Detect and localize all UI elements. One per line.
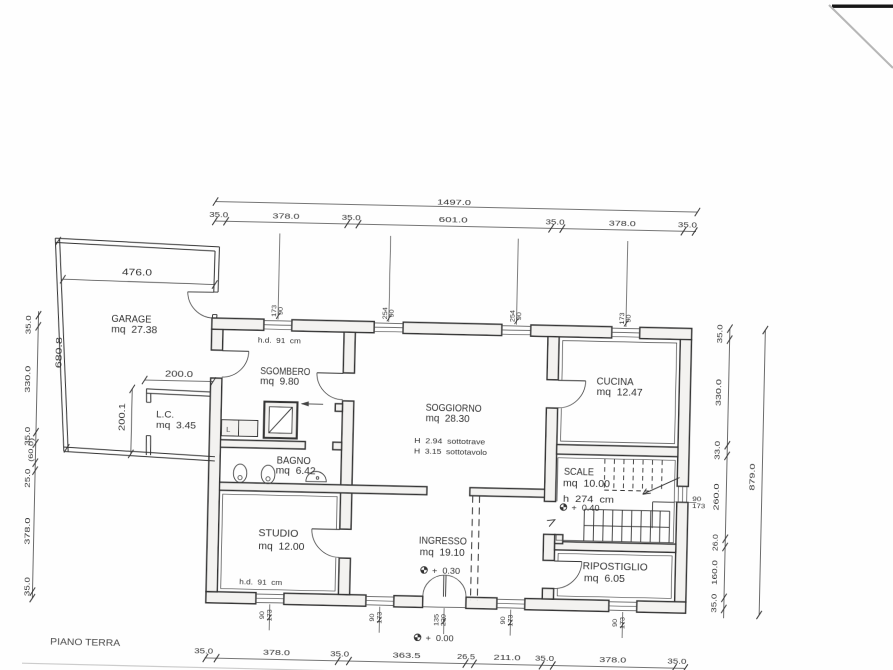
svg-text:STUDIO: STUDIO <box>258 528 298 540</box>
wall: bottom exterior pier 4 <box>466 597 497 609</box>
svg-text:90: 90 <box>500 616 507 625</box>
svg-text:mq 27.38: mq 27.38 <box>111 324 158 336</box>
window: ingresso bottom-right 90/173 <box>497 598 525 601</box>
svg-text:135: 135 <box>433 613 440 626</box>
svg-text:25.0: 25.0 <box>23 469 32 488</box>
svg-text:+ 0.40: + 0.40 <box>571 503 600 513</box>
svg-text:PIANO TERRA: PIANO TERRA <box>50 637 121 650</box>
svg-text:601.0: 601.0 <box>439 215 468 225</box>
wall: top exterior (sgombero) <box>212 318 264 330</box>
lift: cabin inner <box>269 407 293 434</box>
plaster line: scale interior <box>556 458 675 543</box>
dimension: right chain line <box>724 328 730 618</box>
door: sgombero-soggiorno, leaf + arc <box>317 372 343 375</box>
leader: studio window bottom <box>268 604 271 630</box>
dimension: garage 476.0 <box>63 279 215 284</box>
dimension: left chain line <box>32 311 38 598</box>
svg-text:26.5: 26.5 <box>457 654 475 661</box>
wall: ingresso/ripostiglio partition <box>542 588 553 599</box>
door: garage leaf and swing arc <box>188 291 214 294</box>
svg-text:SCALE: SCALE <box>564 467 595 479</box>
datum: entrance +0.00 <box>414 634 421 641</box>
svg-text:35.0: 35.0 <box>194 646 213 655</box>
wall: garage bottom (double line) <box>64 451 215 461</box>
fixture: washbasin dome <box>306 471 327 482</box>
svg-text:90: 90 <box>516 312 523 321</box>
svg-text:33.0: 33.0 <box>713 441 722 460</box>
wall: top exterior (soggiorno/cucina pier) <box>531 325 612 338</box>
stairs: cut diagonal <box>643 477 680 495</box>
window: soggiorno top-left 90/254 <box>374 322 403 325</box>
wall: garage right stub at building corner <box>211 315 213 319</box>
scan artifact: page corner diagonal <box>829 5 893 68</box>
dimension: garage 680.8 (rotated) <box>55 237 60 246</box>
svg-text:90: 90 <box>278 306 285 315</box>
leader: stair landing window 90/173 <box>674 501 696 503</box>
leader: sgombero window <box>278 233 280 319</box>
leader: cucina window <box>626 241 628 327</box>
svg-text:378.0: 378.0 <box>599 655 626 665</box>
leader: ripostiglio window bottom <box>621 612 624 638</box>
wall: garage right upper (double line) <box>214 251 215 292</box>
door: ripostiglio, leaf + arc <box>554 560 581 563</box>
leader: ingresso window bottom-right <box>509 610 512 636</box>
leader: ingresso window bottom-left <box>378 607 381 633</box>
wall: garage left (double line) <box>51 238 69 451</box>
svg-text:476.0: 476.0 <box>122 267 152 278</box>
lift: diagonal <box>269 407 293 434</box>
svg-text:173: 173 <box>266 609 273 622</box>
wall: bagno-studio / soggiorno-ingresso wall <box>219 482 427 495</box>
svg-text:680.8: 680.8 <box>53 337 64 369</box>
door: cucina, leaf + arc <box>558 379 585 382</box>
plaster line: studio interior <box>221 494 337 591</box>
svg-text:35.0: 35.0 <box>545 217 564 226</box>
svg-text:mq 3.45: mq 3.45 <box>156 420 196 432</box>
svg-text:35.0: 35.0 <box>24 315 33 334</box>
svg-text:35.0: 35.0 <box>709 594 718 613</box>
wall: cucina/scale wall <box>557 445 678 457</box>
wall: bottom exterior pier 2 <box>284 593 366 606</box>
svg-text:mq 10.00: mq 10.00 <box>563 478 611 490</box>
wall: scale/ripostiglio wall <box>555 542 676 553</box>
wall: right exterior lower <box>675 502 688 602</box>
window: ingresso bottom-left 90/173 <box>366 595 394 598</box>
scan artifact: black bar top-right <box>832 5 893 8</box>
svg-text:200.0: 200.0 <box>165 369 194 379</box>
stairs: upper flight dashed treads <box>603 459 606 490</box>
svg-text:90: 90 <box>259 611 266 620</box>
svg-text:260.0: 260.0 <box>711 483 721 510</box>
svg-text:RIPOSTIGLIO: RIPOSTIGLIO <box>583 561 648 573</box>
wall: soggiorno/cucina partition <box>547 337 559 380</box>
wall: bagno top wall stub <box>333 442 342 450</box>
wall: soggiorno-ingresso wall right piece <box>470 488 545 498</box>
dashed line: ingresso virtual boundary (double) <box>471 496 473 600</box>
svg-text:363.5: 363.5 <box>392 651 420 661</box>
svg-text:mq 12.47: mq 12.47 <box>596 387 643 399</box>
door: main entrance double leaves + arcs <box>442 575 444 597</box>
wall: studio/ingresso partition middle <box>340 401 354 529</box>
svg-text:INGRESSO: INGRESSO <box>419 535 467 547</box>
window: sgombero top 90/173 <box>264 320 292 323</box>
stairs: upper flight dashed stringer <box>604 490 652 491</box>
svg-text:330.0: 330.0 <box>714 379 724 406</box>
stairs: lower flight stringers <box>584 509 669 511</box>
svg-text:mq 6.42: mq 6.42 <box>276 466 317 478</box>
svg-text:1497.0: 1497.0 <box>437 197 471 207</box>
wall: ingresso/scale partition <box>543 534 555 560</box>
dimension: l.c. 200.0 <box>145 380 213 381</box>
svg-text:173: 173 <box>376 611 383 624</box>
wall: bagno top wall <box>220 440 305 449</box>
wall: l.c. left lower <box>145 436 148 456</box>
svg-text:H 2.94 sottotrave: H 2.94 sottotrave <box>414 438 485 447</box>
wall: l.c. top (double line) <box>146 389 210 392</box>
wall: top exterior (cucina corner) <box>640 327 692 339</box>
datum: scale +0.40 <box>560 504 567 511</box>
lift: pointer arrow <box>302 403 323 405</box>
window: stair landing right 90/173 <box>677 486 679 502</box>
svg-text:h.d. 91 cm: h.d. 91 cm <box>239 579 282 587</box>
wall: top exterior (soggiorno) <box>403 322 502 335</box>
stairs: lower flight treads <box>583 509 586 540</box>
wall: l.c. left upper <box>145 389 148 402</box>
svg-text:35.0: 35.0 <box>715 324 724 343</box>
svg-text:330.0: 330.0 <box>23 366 33 393</box>
svg-text:173: 173 <box>619 616 626 629</box>
leader: entrance door <box>443 608 446 634</box>
plaster line: ripostiglio interior <box>557 553 672 598</box>
svg-text:230: 230 <box>441 614 448 627</box>
svg-text:mq 28.30: mq 28.30 <box>426 413 471 425</box>
svg-text:+ 0.00: + 0.00 <box>425 634 454 644</box>
fixture: toilet 2 (bidet) <box>261 465 275 484</box>
wall: sgombero/soggiorno partition upper <box>343 332 355 373</box>
wall: studio/ingresso partition lower <box>338 558 350 595</box>
svg-text:35.0: 35.0 <box>667 657 686 666</box>
door: sgombero from west, leaf + arc <box>222 350 248 353</box>
svg-text:35.0: 35.0 <box>678 220 697 229</box>
svg-text:(60.0): (60.0) <box>28 438 36 462</box>
stairs: landing edge <box>653 501 675 503</box>
svg-text:378.0: 378.0 <box>23 518 33 545</box>
plaster line: cucina interior <box>561 341 677 444</box>
svg-text:879.0: 879.0 <box>747 463 757 490</box>
fixture: toilet 1 <box>233 464 247 483</box>
svg-text:L: L <box>226 425 230 434</box>
wall: left exterior upper <box>211 329 223 350</box>
svg-text:173: 173 <box>692 503 706 510</box>
scan artifact: bottom page edge <box>22 663 585 670</box>
wall: bottom exterior (studio corner) <box>206 592 256 604</box>
svg-text:160.0: 160.0 <box>710 560 720 585</box>
wall: bottom exterior pier 3 <box>394 596 423 608</box>
svg-text:200.1: 200.1 <box>118 402 128 431</box>
svg-text:mq 12.00: mq 12.00 <box>258 541 305 553</box>
wall: right exterior upper <box>677 339 691 486</box>
threshold: main entrance <box>423 606 466 609</box>
svg-text:378.0: 378.0 <box>609 219 636 229</box>
wall: soggiorno/scale partition <box>544 408 557 502</box>
svg-text:35.0: 35.0 <box>22 577 31 596</box>
svg-text:+ 0.30: + 0.30 <box>432 566 461 576</box>
window: studio bottom 90/173 <box>256 593 284 596</box>
svg-text:90: 90 <box>369 613 376 622</box>
dimension: overall 879.0 line <box>759 330 765 615</box>
wall: top exterior (sgombero/soggiorno pier) <box>292 320 375 333</box>
window: ripostiglio bottom 90/173 <box>609 601 637 604</box>
dimension: l.c. 200.1 (rotated) <box>131 389 132 454</box>
stairs: landing divider <box>651 502 654 528</box>
wall: left exterior lower <box>206 378 222 592</box>
dimension: bottom chain line <box>205 658 685 668</box>
svg-text:35.0: 35.0 <box>330 649 349 658</box>
svg-text:378.0: 378.0 <box>272 211 299 221</box>
appliance: box 2 <box>238 420 257 436</box>
wall: bottom exterior pier 5 <box>525 598 609 611</box>
svg-text:h.d. 91 cm: h.d. 91 cm <box>258 338 301 346</box>
wall: bottom exterior (ripostiglio corner) <box>637 601 686 613</box>
svg-text:H 3.15 sottotavolo: H 3.15 sottotavolo <box>414 448 487 457</box>
door: scale ajar mark <box>547 520 555 527</box>
svg-text:35.0: 35.0 <box>209 210 228 219</box>
wall: niche stub on partition <box>335 404 342 412</box>
dimension: overall 1497.0 line <box>216 202 698 213</box>
svg-text:90: 90 <box>612 618 619 627</box>
leader: soggiorno window 2 <box>516 239 518 325</box>
door: studio-ingresso, leaf + arc <box>312 528 340 531</box>
svg-text:378.0: 378.0 <box>263 648 290 658</box>
svg-text:mq 19.10: mq 19.10 <box>420 547 466 559</box>
datum: ingresso +0.30 <box>421 567 428 574</box>
window: soggiorno top-right 90/254 <box>502 325 531 328</box>
svg-text:mq 6.05: mq 6.05 <box>584 573 626 585</box>
svg-text:90: 90 <box>388 309 395 318</box>
dimension: top chain line <box>215 221 696 231</box>
leader: soggiorno window 1 <box>389 236 391 322</box>
window: cucina top 90/173 <box>612 327 640 330</box>
svg-text:90: 90 <box>625 314 632 323</box>
svg-text:26.0: 26.0 <box>713 534 720 551</box>
svg-text:173: 173 <box>507 614 514 627</box>
svg-text:35.0: 35.0 <box>342 213 361 222</box>
lift: shaft outer <box>264 402 298 439</box>
svg-text:mq 9.80: mq 9.80 <box>260 376 300 388</box>
svg-text:211.0: 211.0 <box>493 653 520 663</box>
wall: garage top (double line) <box>55 238 219 247</box>
svg-text:35.0: 35.0 <box>535 654 554 663</box>
appliance: box L <box>221 420 238 436</box>
wall: stub at scale door jamb <box>555 535 563 544</box>
